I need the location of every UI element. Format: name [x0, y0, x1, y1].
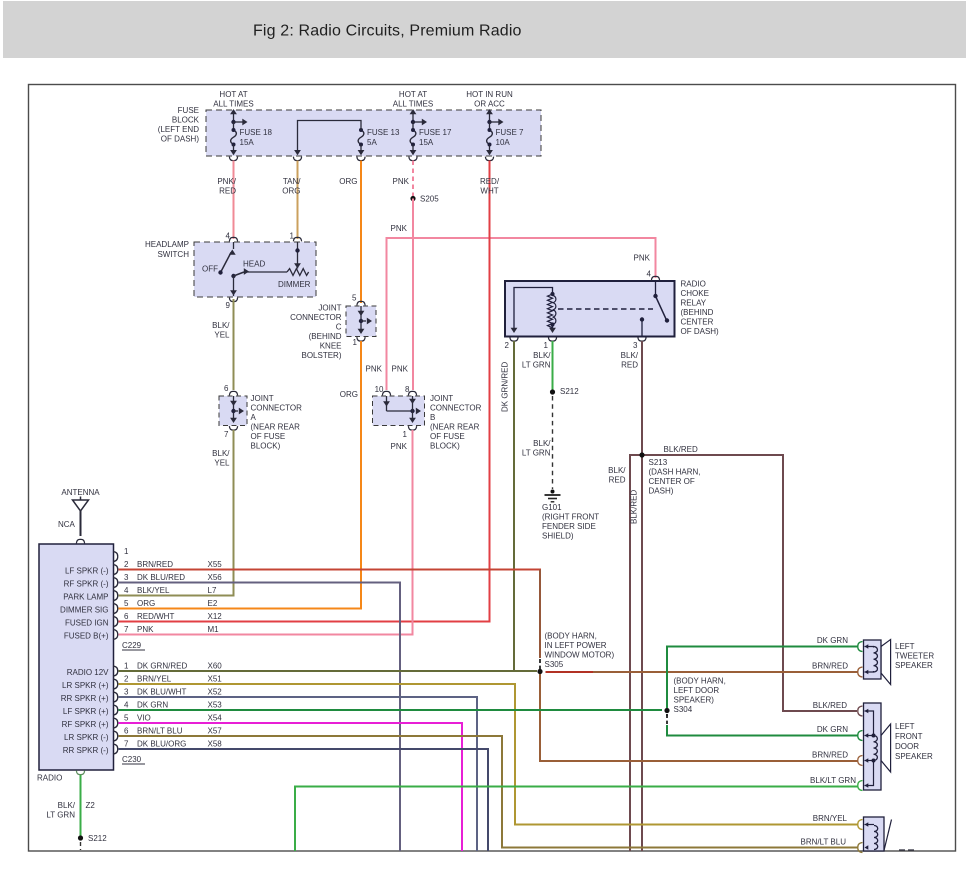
svg-text:DK BLU/WHT: DK BLU/WHT: [137, 688, 186, 697]
svg-text:ORG: ORG: [282, 187, 300, 196]
svg-text:Fig 2: Radio Circuits, Premium: Fig 2: Radio Circuits, Premium Radio: [253, 23, 522, 40]
headlamp common to pin 9: [233, 276, 235, 296]
svg-text:3: 3: [124, 688, 129, 697]
svg-text:3: 3: [633, 341, 638, 350]
fuse FUSE 18 15A: [233, 113, 235, 122]
svg-text:1: 1: [124, 547, 129, 556]
svg-text:C: C: [336, 323, 342, 332]
svg-text:PNK: PNK: [391, 442, 408, 451]
svg-text:FUSE: FUSE: [178, 106, 199, 115]
svg-text:DK GRN/RED: DK GRN/RED: [137, 662, 187, 671]
svg-text:DK BLU/ORG: DK BLU/ORG: [137, 740, 186, 749]
wire BLK/LT GRN relay pin1 to splice S212: [552, 341, 554, 390]
svg-text:BLK/YEL: BLK/YEL: [137, 586, 170, 595]
svg-text:OF DASH): OF DASH): [681, 327, 720, 336]
svg-text:HEADLAMP: HEADLAMP: [145, 240, 189, 249]
fuse FUSE 7 10A: [489, 113, 491, 122]
svg-text:VIO: VIO: [137, 714, 151, 723]
svg-text:2: 2: [124, 560, 129, 569]
svg-text:LEFT: LEFT: [895, 642, 915, 651]
joint connector B: [373, 396, 425, 426]
joint connector A: [219, 396, 247, 426]
svg-text:A: A: [251, 413, 257, 422]
svg-text:5A: 5A: [367, 138, 377, 147]
radio ground lead Z2: [76, 771, 84, 775]
svg-text:FRONT: FRONT: [895, 732, 923, 741]
headlamp pin 9: [229, 298, 237, 302]
wire BRN/RED S305 to left tweeter speaker: [546, 671, 594, 673]
wire BLK/YEL headlamp pin9 to joint connector A: [233, 299, 235, 390]
wire DK BLU/RED radio pin3 down offpage: [119, 583, 401, 852]
wire BRN/RED S305 to left front door speaker: [540, 674, 858, 761]
svg-text:ORG: ORG: [339, 177, 357, 186]
splice S213 and BLK/RED branches: [630, 455, 857, 851]
svg-text:L7: L7: [208, 586, 217, 595]
relay coil: [514, 288, 553, 332]
svg-text:DK GRN: DK GRN: [817, 725, 848, 734]
wire BLK/YEL joint connector A to radio pin4 row: [119, 430, 234, 596]
svg-text:X56: X56: [208, 573, 223, 582]
svg-text:DASH): DASH): [649, 487, 674, 496]
wire DK BLU/ORG radio pin7 down offpage: [119, 749, 489, 851]
wire BLK/RED relay pin3 to splice S213: [641, 341, 643, 455]
svg-text:LR SPKR (+): LR SPKR (+): [62, 681, 109, 690]
svg-text:HEAD: HEAD: [243, 260, 265, 269]
svg-text:BRN/RED: BRN/RED: [812, 662, 848, 671]
relay pin 1: [548, 337, 556, 341]
radio C229 pin 2 BRN/RED: [113, 565, 118, 575]
svg-text:5: 5: [352, 294, 357, 303]
svg-text:X12: X12: [208, 612, 223, 621]
left front door speaker: [881, 724, 891, 772]
svg-text:JOINT: JOINT: [430, 394, 453, 403]
svg-text:3: 3: [124, 573, 129, 582]
svg-text:Z2: Z2: [86, 801, 96, 810]
svg-text:LF SPKR (+): LF SPKR (+): [63, 707, 109, 716]
wire PNK S205 down to joint connector B pin 8: [412, 199, 414, 391]
svg-text:(BODY HARN,: (BODY HARN,: [674, 677, 726, 686]
splice S305: [537, 669, 542, 674]
svg-text:X52: X52: [208, 688, 223, 697]
wire PNK joint connector B to radio pin7 row: [119, 430, 413, 635]
svg-text:TAN/: TAN/: [283, 177, 301, 186]
svg-text:SPEAKER: SPEAKER: [895, 752, 933, 761]
wire BLK/LT GRN left front door speaker return down offpage: [295, 787, 858, 852]
dimmer rheostat: [287, 269, 309, 276]
svg-text:LT GRN: LT GRN: [522, 449, 551, 458]
svg-text:FUSE 17: FUSE 17: [419, 128, 452, 137]
left tweeter speaker: [881, 640, 891, 685]
radio unit: [39, 544, 114, 770]
ground G101: [551, 490, 555, 494]
splice S205: [410, 196, 415, 201]
svg-text:LT GRN: LT GRN: [46, 811, 75, 820]
svg-text:PNK/: PNK/: [217, 177, 236, 186]
wire DK BLU/WHT radio pin3 down offpage: [119, 697, 478, 851]
svg-text:BLOCK: BLOCK: [172, 116, 200, 125]
antenna connector at radio: [76, 539, 84, 543]
svg-text:YEL: YEL: [214, 459, 230, 468]
svg-text:SPEAKER: SPEAKER: [895, 661, 933, 670]
svg-text:OF DASH): OF DASH): [161, 135, 200, 144]
svg-text:RF SPKR (-): RF SPKR (-): [64, 580, 109, 589]
svg-text:LR SPKR (-): LR SPKR (-): [64, 733, 109, 742]
radio C229 pin 4 BLK/YEL: [113, 591, 118, 601]
svg-text:X53: X53: [208, 701, 223, 710]
svg-text:BRN/LT BLU: BRN/LT BLU: [801, 838, 847, 847]
svg-text:BLOCK): BLOCK): [251, 442, 281, 451]
svg-text:DK GRN: DK GRN: [817, 636, 848, 645]
svg-text:DIMMER SIG: DIMMER SIG: [60, 606, 108, 615]
svg-text:BLK/: BLK/: [533, 351, 551, 360]
svg-text:5: 5: [124, 599, 129, 608]
wire BRN/LT BLU radio pin6 to left rear speaker: [119, 736, 859, 848]
svg-text:LEFT DOOR: LEFT DOOR: [674, 686, 720, 695]
wire DK GRN S304 to left tweeter speaker: [667, 647, 858, 709]
svg-text:2: 2: [124, 675, 129, 684]
wire ORG joint connector C to radio pin5 row: [119, 341, 362, 609]
svg-text:(NEAR REAR: (NEAR REAR: [430, 423, 480, 432]
wire DK GRN S304 to left front door speaker: [666, 714, 668, 716]
svg-text:CONNECTOR: CONNECTOR: [251, 404, 303, 413]
svg-text:OF FUSE: OF FUSE: [430, 432, 465, 441]
svg-text:4: 4: [124, 701, 129, 710]
svg-text:BLK/RED: BLK/RED: [630, 490, 639, 524]
svg-text:OFF: OFF: [202, 265, 218, 274]
svg-text:OF FUSE: OF FUSE: [251, 432, 286, 441]
radio C230 pin 4 DK GRN: [113, 705, 118, 715]
radio C230 pin 7 DK BLU/ORG: [113, 744, 118, 754]
svg-text:S305: S305: [545, 660, 564, 669]
svg-text:(BEHIND: (BEHIND: [681, 308, 714, 317]
svg-text:(BODY HARN,: (BODY HARN,: [545, 632, 597, 641]
svg-text:ORG: ORG: [340, 390, 358, 399]
svg-text:X57: X57: [208, 727, 223, 736]
wire DK GRN radio pin4 to splice S304: [119, 709, 663, 711]
joint connector C: [346, 306, 376, 337]
radio C229 pin 7 PNK: [113, 630, 118, 640]
svg-text:FUSED B(+): FUSED B(+): [64, 632, 109, 641]
svg-text:BLK/: BLK/: [608, 466, 626, 475]
svg-text:1: 1: [124, 662, 129, 671]
svg-text:1: 1: [544, 341, 549, 350]
radio C230 pin 6 BRN/LT BLU: [113, 731, 118, 741]
svg-text:5: 5: [124, 714, 129, 723]
relay actuation dashed link: [558, 308, 653, 310]
svg-text:RR SPKR (-): RR SPKR (-): [63, 746, 109, 755]
svg-text:1: 1: [353, 338, 358, 347]
svg-text:BRN/LT BLU: BRN/LT BLU: [137, 727, 183, 736]
svg-text:6: 6: [124, 727, 129, 736]
svg-text:(NEAR REAR: (NEAR REAR: [251, 423, 301, 432]
fuse FUSE 17 15A: [412, 113, 414, 122]
svg-text:RR SPKR (+): RR SPKR (+): [61, 694, 109, 703]
fuse FUSE 13 5A: [358, 130, 364, 145]
svg-text:M1: M1: [208, 625, 220, 634]
svg-text:CENTER OF: CENTER OF: [649, 477, 695, 486]
svg-text:15A: 15A: [240, 138, 255, 147]
svg-text:PNK: PNK: [137, 625, 154, 634]
svg-text:PNK: PNK: [634, 254, 651, 263]
svg-text:S304: S304: [674, 705, 693, 714]
svg-text:RELAY: RELAY: [681, 299, 707, 308]
svg-text:SPEAKER): SPEAKER): [674, 696, 715, 705]
svg-text:FENDER SIDE: FENDER SIDE: [542, 522, 596, 531]
svg-text:DK GRN/RED: DK GRN/RED: [501, 362, 510, 412]
svg-text:BLK/: BLK/: [212, 449, 230, 458]
svg-text:15A: 15A: [419, 138, 434, 147]
svg-text:CONNECTOR: CONNECTOR: [430, 404, 482, 413]
svg-text:YEL: YEL: [214, 331, 230, 340]
svg-text:(BEHIND: (BEHIND: [309, 332, 342, 341]
svg-text:4: 4: [124, 586, 129, 595]
svg-text:WINDOW MOTOR): WINDOW MOTOR): [545, 651, 615, 660]
svg-text:CHOKE: CHOKE: [681, 289, 709, 298]
svg-text:RED: RED: [609, 476, 626, 485]
wire TAN/ORG fuse13-link to headlamp pin1: [297, 161, 299, 240]
radio C229 pin 3 DK BLU/RED: [113, 578, 118, 588]
svg-text:BRN/YEL: BRN/YEL: [137, 675, 172, 684]
svg-text:6: 6: [224, 384, 229, 393]
svg-text:DIMMER: DIMMER: [278, 280, 311, 289]
relay switch: [655, 281, 657, 296]
svg-text:(LEFT END: (LEFT END: [158, 125, 199, 134]
svg-text:DK GRN: DK GRN: [137, 701, 168, 710]
svg-text:TWEETER: TWEETER: [895, 652, 934, 661]
svg-text:E2: E2: [208, 599, 218, 608]
svg-text:HOT AT: HOT AT: [219, 90, 247, 99]
svg-text:C230: C230: [122, 755, 142, 764]
svg-text:RF SPKR (+): RF SPKR (+): [62, 720, 109, 729]
headlamp switch internals: OFF/HEAD selector: [233, 242, 235, 249]
svg-text:BLK/RED: BLK/RED: [664, 445, 698, 454]
radio C230 pin 3 DK BLU/WHT: [113, 692, 118, 702]
svg-text:PNK: PNK: [391, 224, 408, 233]
svg-text:BRN/RED: BRN/RED: [812, 751, 848, 760]
svg-text:BOLSTER): BOLSTER): [301, 351, 341, 360]
svg-text:ALL TIMES: ALL TIMES: [393, 100, 433, 109]
svg-text:PNK: PNK: [366, 365, 383, 374]
svg-text:BRN/YEL: BRN/YEL: [813, 814, 848, 823]
svg-text:6: 6: [124, 612, 129, 621]
svg-text:FUSE 7: FUSE 7: [496, 128, 525, 137]
svg-text:PARK LAMP: PARK LAMP: [63, 593, 108, 602]
svg-text:BLK/: BLK/: [212, 321, 230, 330]
relay pin 2: [510, 337, 518, 341]
svg-text:LT GRN: LT GRN: [522, 361, 551, 370]
svg-text:PNK: PNK: [392, 365, 409, 374]
svg-text:7: 7: [124, 740, 129, 749]
svg-text:7: 7: [224, 430, 229, 439]
svg-text:BLK/RED: BLK/RED: [813, 701, 847, 710]
svg-text:(RIGHT FRONT: (RIGHT FRONT: [542, 513, 599, 522]
svg-text:7: 7: [124, 625, 129, 634]
svg-text:S213: S213: [649, 458, 668, 467]
svg-text:BRN/RED: BRN/RED: [137, 560, 173, 569]
wire BRN/RED radio pin2 to splice S305: [119, 570, 541, 658]
radio C230 pin 5 VIO: [113, 718, 118, 728]
svg-text:SHIELD): SHIELD): [542, 532, 574, 541]
wire ORG fuse13 to joint connector C: [360, 161, 362, 304]
svg-text:10A: 10A: [496, 138, 511, 147]
svg-text:10: 10: [375, 385, 384, 394]
svg-text:RADIO: RADIO: [37, 774, 62, 783]
svg-text:X51: X51: [208, 675, 223, 684]
headlamp switch: [194, 242, 316, 297]
svg-text:RED/WHT: RED/WHT: [137, 612, 174, 621]
radio C229 pin 6 RED/WHT: [113, 617, 118, 627]
svg-text:ALL TIMES: ALL TIMES: [213, 100, 253, 109]
svg-text:X60: X60: [208, 662, 223, 671]
svg-text:1: 1: [403, 430, 408, 439]
svg-text:8: 8: [405, 385, 410, 394]
svg-text:JOINT: JOINT: [318, 304, 341, 313]
svg-text:9: 9: [226, 301, 231, 310]
svg-text:B: B: [430, 413, 435, 422]
radio choke relay: [505, 281, 675, 337]
svg-text:S205: S205: [420, 195, 439, 204]
svg-text:1: 1: [290, 232, 295, 241]
svg-text:WHT: WHT: [480, 187, 498, 196]
wire RED/WHT fuse7 down to radio pin6 row: [119, 161, 490, 622]
svg-text:ORG: ORG: [137, 599, 155, 608]
relay pin 3: [638, 337, 646, 341]
svg-text:RED/: RED/: [480, 177, 500, 186]
svg-text:KNEE: KNEE: [320, 342, 342, 351]
svg-text:4: 4: [647, 270, 652, 279]
svg-text:2: 2: [505, 341, 510, 350]
svg-text:DOOR: DOOR: [895, 742, 919, 751]
fuse 13 feed link to tan/org output: [298, 121, 362, 155]
wire BRN/YEL radio to left rear speaker: [119, 684, 859, 825]
splice S212 (radio ground): [78, 835, 83, 840]
radio C230 pin 1 DK GRN/RED: [113, 666, 118, 676]
svg-text:C229: C229: [122, 641, 142, 650]
svg-text:BLK/LT GRN: BLK/LT GRN: [810, 776, 856, 785]
radio C229 pin 5 ORG: [113, 604, 118, 614]
svg-text:DK BLU/RED: DK BLU/RED: [137, 573, 185, 582]
svg-text:SWITCH: SWITCH: [157, 250, 189, 259]
svg-text:ANTENNA: ANTENNA: [61, 488, 100, 497]
svg-text:S212: S212: [88, 834, 107, 843]
svg-text:4: 4: [226, 232, 231, 241]
svg-text:BLK/: BLK/: [533, 439, 551, 448]
svg-text:RADIO 12V: RADIO 12V: [67, 668, 109, 677]
svg-text:S212: S212: [560, 387, 579, 396]
radio C230 pin 2 BRN/YEL: [113, 679, 118, 689]
wire PNK fuse17 dashed to splice S205: [412, 161, 414, 197]
svg-text:FUSE 13: FUSE 13: [367, 128, 400, 137]
svg-text:RED: RED: [219, 187, 236, 196]
fuse block (left end of dash): [206, 110, 541, 156]
svg-text:BLK/: BLK/: [58, 801, 76, 810]
svg-text:OR ACC: OR ACC: [474, 100, 505, 109]
svg-text:BLOCK): BLOCK): [430, 442, 460, 451]
svg-text:X54: X54: [208, 714, 223, 723]
svg-text:RADIO: RADIO: [681, 280, 706, 289]
svg-text:(DASH HARN,: (DASH HARN,: [649, 468, 701, 477]
svg-text:X58: X58: [208, 740, 223, 749]
svg-text:LEFT: LEFT: [895, 722, 915, 731]
svg-text:G101: G101: [542, 503, 562, 512]
header bar: [3, 1, 966, 58]
svg-text:FUSED IGN: FUSED IGN: [65, 619, 109, 628]
wire VIO radio pin5 down offpage: [119, 723, 463, 851]
relay pin 4 (top): [651, 276, 659, 280]
svg-text:IN LEFT POWER: IN LEFT POWER: [545, 641, 607, 650]
svg-text:NCA: NCA: [58, 520, 76, 529]
svg-text:JOINT: JOINT: [251, 394, 274, 403]
headlamp pin 1: [293, 237, 301, 241]
svg-text:HOT AT: HOT AT: [399, 90, 427, 99]
splice S304: [664, 708, 669, 713]
svg-text:FUSE 18: FUSE 18: [240, 128, 273, 137]
svg-text:RED: RED: [621, 361, 638, 370]
wire PNK/RED fuse18 to headlamp pin4: [233, 161, 235, 240]
left rear door speaker (cut by border): [884, 820, 892, 851]
svg-text:PNK: PNK: [393, 177, 410, 186]
svg-text:X55: X55: [208, 560, 223, 569]
svg-text:HOT IN RUN: HOT IN RUN: [466, 90, 513, 99]
splice S212: [550, 389, 555, 394]
headlamp pin 4: [229, 237, 237, 241]
svg-text:BLK/: BLK/: [621, 351, 639, 360]
svg-text:LF SPKR (-): LF SPKR (-): [65, 567, 109, 576]
dashed lead S212 to ground G101: [552, 396, 554, 489]
radio C229 pin 1: [113, 552, 118, 562]
svg-text:CENTER: CENTER: [681, 318, 714, 327]
wire DK GRN/RED radio 12V row to splice S305: [119, 670, 538, 672]
svg-text:CONNECTOR: CONNECTOR: [290, 313, 342, 322]
wire DK GRN/RED relay pin2 down to radio 12V row: [513, 341, 515, 671]
